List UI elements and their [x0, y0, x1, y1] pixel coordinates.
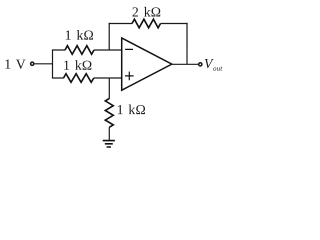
svg-text:1 V: 1 V: [4, 57, 26, 72]
wire output from op-amp tip to terminal: [172, 63, 199, 65]
wire left vertical split: [52, 50, 54, 78]
svg-text:2 kΩ: 2 kΩ: [132, 5, 161, 20]
svg-text:out: out: [213, 65, 223, 73]
wire R1 right lead to op-amp minus input: [94, 49, 122, 51]
op-amp U1 triangle: [122, 38, 172, 90]
resistor R3 2 kOhm (feedback): [132, 19, 161, 28]
wire R2 right lead to op-amp plus input: [94, 77, 122, 79]
svg-text:1 kΩ: 1 kΩ: [65, 28, 94, 43]
resistor R4 1 kOhm (vertical to ground): [105, 98, 113, 127]
op-amp U1 plus sign: [125, 72, 134, 81]
op-amp U1 minus sign: [125, 48, 133, 50]
wire feedback tap vertical up from minus node: [108, 23, 110, 50]
wire feedback top left segment: [109, 22, 133, 24]
resistor R2 1 kOhm (middle left): [63, 74, 93, 83]
wire R4 bottom lead to ground: [108, 127, 110, 140]
resistor R1 1 kOhm (top left): [65, 46, 94, 55]
wire feedback right vertical down to output: [186, 23, 188, 64]
node Vin terminal circle: [31, 62, 34, 65]
svg-text:1 kΩ: 1 kΩ: [63, 58, 92, 73]
svg-text:1 kΩ: 1 kΩ: [117, 102, 146, 117]
wire R2 left lead: [52, 77, 64, 79]
wire feedback top right segment: [161, 23, 188, 25]
wire input from terminal to split node: [34, 63, 52, 65]
wire plus node tap vertical down: [108, 78, 110, 99]
ground symbol: [103, 141, 115, 147]
node Vout terminal circle: [199, 63, 202, 66]
wire R1 left lead: [52, 49, 65, 51]
